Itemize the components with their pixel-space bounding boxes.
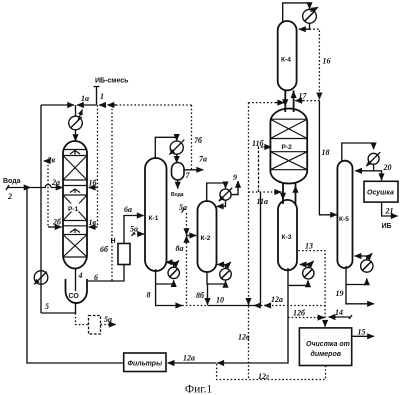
svg-text:12в: 12в (238, 333, 250, 342)
wire 19 (336, 285, 375, 304)
svg-text:6: 6 (94, 273, 98, 282)
svg-text:2а: 2а (51, 178, 60, 187)
svg-text:20: 20 (383, 163, 392, 172)
svg-text:18: 18 (322, 148, 330, 157)
svg-text:5а: 5а (104, 315, 112, 324)
wire 2б branch (48, 218, 62, 228)
svg-text:К-4: К-4 (281, 57, 291, 64)
wire: Р-2 / К-3 neck (283, 183, 296, 204)
wire 6б dotted riser x=112 (100, 105, 112, 281)
node: feed label ИБ-смесь (95, 78, 129, 85)
heat exchanger on Р-1 feed (69, 110, 83, 130)
wire 6а: pump to К-1 (124, 205, 144, 244)
wire 13 dotted (298, 242, 325, 327)
wire 1б/1в dotted riser x=97.5 (97, 105, 99, 227)
wire 8 (147, 284, 183, 306)
wire 5а: dashed box near СО (76, 313, 116, 334)
wire 7б dotted riser x=191.5 (192, 105, 204, 170)
svg-text:19: 19 (336, 289, 344, 298)
vessel СО (66, 279, 88, 303)
reactor Р-2 internals (270, 119, 307, 170)
wire: feed into Р-1 top (75, 130, 77, 141)
wire 2в branch (44, 156, 56, 228)
wire 21: ИБ product (382, 202, 398, 230)
wire: К-2 reflux return (217, 200, 226, 206)
wire 4: Р-1 bottom to СО (76, 269, 83, 292)
svg-text:10: 10 (216, 296, 224, 305)
svg-text:12а: 12а (271, 295, 283, 304)
svg-text:Вода: Вода (171, 192, 184, 198)
svg-text:2: 2 (7, 192, 12, 201)
svg-text:К-3: К-3 (282, 234, 292, 241)
box: Очистка от димеров (299, 328, 351, 366)
wire 17 dotted (295, 92, 319, 101)
reboiler К-2 (207, 262, 231, 284)
wire 1в into Р-1 (89, 218, 98, 227)
svg-text:1: 1 (100, 92, 104, 101)
svg-text:12б: 12б (293, 309, 306, 318)
wire: Р-2 bottoms solid drop x=260.5 (254, 192, 270, 306)
caption Фиг.1 (185, 384, 213, 395)
svg-text:8б: 8б (196, 291, 205, 300)
svg-text:5: 5 (45, 302, 49, 311)
wire: К-4 overhead (283, 3, 310, 22)
pump Н (111, 238, 131, 265)
svg-text:СО: СО (69, 293, 80, 300)
svg-text:6б: 6б (100, 245, 109, 254)
wire 12б dotted (288, 309, 324, 318)
svg-text:К-2: К-2 (201, 235, 211, 242)
wire: dotted header to junction 1 (99, 104, 191, 106)
svg-text:К-1: К-1 (149, 215, 159, 222)
wire: filters return riser x=27 (27, 188, 124, 364)
svg-text:2б: 2б (52, 218, 62, 227)
svg-text:8: 8 (147, 291, 151, 300)
svg-text:7б: 7б (194, 136, 203, 145)
wire 12а: К-3 bottoms to filters (168, 285, 288, 363)
reactor Р-1 shell (63, 141, 87, 269)
svg-text:9: 9 (233, 173, 237, 182)
reboiler К-1 (156, 261, 180, 284)
svg-text:1в: 1в (89, 218, 97, 227)
svg-text:ИБ: ИБ (382, 223, 392, 230)
svg-text:12а: 12а (183, 354, 195, 363)
wire: К-2 bottoms into header (207, 284, 209, 305)
box: Осушка (364, 181, 398, 202)
svg-text:6а: 6а (124, 205, 132, 214)
column К-4 (278, 21, 297, 90)
svg-text:17: 17 (299, 92, 308, 101)
svg-text:ИБ-смесь: ИБ-смесь (95, 78, 129, 85)
svg-text:димеров: димеров (311, 350, 342, 358)
svg-text:К-5: К-5 (339, 216, 349, 223)
wire 12г dotted (217, 363, 326, 381)
wire 11б dashed (252, 139, 271, 192)
wire 18 (319, 101, 337, 215)
svg-text:21: 21 (385, 207, 394, 216)
svg-text:1а: 1а (81, 94, 89, 103)
condenser К-2 (219, 188, 232, 201)
svg-text:Фиг.1: Фиг.1 (185, 384, 213, 395)
wire 1б into Р-1 (89, 179, 98, 188)
box: Фильтры (124, 353, 166, 372)
heat exchanger on line 5 (34, 271, 49, 311)
wire: СО bottom to line 5 (41, 302, 76, 313)
svg-text:12г: 12г (258, 372, 269, 381)
wire: К-1 overhead to condenser (155, 137, 176, 159)
svg-text:Р-1: Р-1 (68, 206, 79, 213)
condenser К-5 (366, 152, 380, 166)
wire 5а dashed into К-1 (130, 225, 144, 237)
wire: К-5 overhead (342, 143, 374, 162)
svg-text:15: 15 (358, 328, 366, 337)
wire 9 (231, 173, 238, 195)
wire 20: reflux + to drying (355, 163, 391, 180)
svg-text:14: 14 (335, 308, 343, 317)
svg-text:16: 16 (323, 57, 331, 66)
wire 6: СО to pump (87, 265, 124, 283)
reactor Р-1 internals (63, 150, 87, 258)
wire 5а/8а dotted riser x=186.5 (176, 203, 197, 306)
svg-text:8а: 8а (176, 244, 184, 253)
condenser К-4 (299, 7, 318, 29)
svg-text:Очистка от: Очистка от (306, 341, 350, 348)
wire 1: feed line down with start tick (81, 87, 104, 106)
wire: left dotted feed into neck (249, 102, 285, 104)
condenser К-1 (170, 140, 185, 155)
svg-text:Вода: Вода (3, 178, 21, 185)
wire 1а: horizontal header y=105 (41, 105, 97, 117)
column К-5 (337, 161, 352, 268)
svg-text:13: 13 (305, 242, 313, 251)
wire: condenser to separator 7 (176, 154, 178, 163)
svg-text:2в: 2в (47, 156, 56, 165)
wire: water out of separator 7 (171, 180, 184, 198)
svg-text:11а: 11а (257, 197, 269, 206)
wire 11а dotted (249, 192, 282, 206)
wire: big dotted riser x=248.5 (238, 103, 250, 380)
separator 7 (172, 163, 191, 181)
wire 5: left recycle riser x=41 (40, 105, 42, 313)
wire 14 (329, 308, 352, 319)
svg-text:7а: 7а (199, 155, 207, 164)
wire 7а (184, 155, 207, 170)
wire 15 (352, 328, 374, 337)
svg-text:Осушка: Осушка (367, 190, 394, 197)
column К-1 (145, 158, 167, 271)
wire: bottoms header y=305.5 (182, 291, 325, 306)
wire 2: water feed (3, 178, 63, 201)
svg-text:Р-2: Р-2 (282, 144, 293, 151)
wire: К-4 / Р-2 neck (285, 90, 293, 112)
column К-3 (278, 200, 297, 270)
svg-text:Н: Н (111, 238, 116, 245)
svg-text:4: 4 (78, 271, 83, 280)
reboiler К-3 (288, 261, 314, 285)
column К-2 (198, 201, 217, 272)
reboiler К-5 (346, 253, 373, 284)
wire 16 dotted (310, 29, 331, 99)
wire: К-2 overhead (207, 183, 226, 202)
reactor Р-2 shell (270, 108, 307, 183)
svg-text:Фильтры: Фильтры (128, 361, 163, 368)
svg-text:1б: 1б (89, 179, 98, 188)
